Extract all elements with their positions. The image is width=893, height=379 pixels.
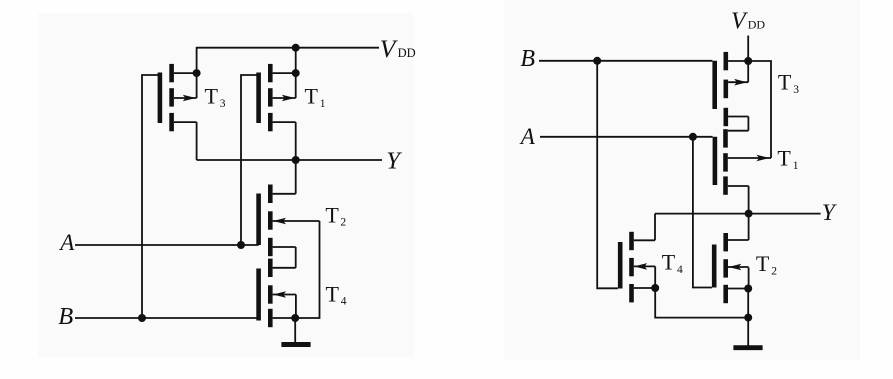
svg-text:T: T	[326, 281, 340, 306]
transistor T3 (left)	[160, 64, 197, 131]
node: T4 source junction	[291, 314, 299, 322]
transistor T1 (left)	[259, 64, 296, 131]
transistor T2 (right)	[714, 233, 748, 303]
wire: output Y line (left)	[197, 159, 382, 161]
wire: T4 body down to source node	[654, 266, 656, 288]
node: T3 drain junction	[193, 69, 201, 77]
svg-text:T: T	[325, 202, 339, 227]
svg-text:T: T	[777, 146, 791, 171]
scan background tint (left page scan)	[38, 13, 414, 357]
right circuit: E/D NMOS NOR gate	[519, 9, 838, 348]
wire: T3 drain over to body rail of T1	[748, 61, 771, 158]
svg-text:B: B	[520, 46, 535, 72]
label T1 (left)	[305, 84, 326, 111]
svg-text:Y: Y	[386, 148, 402, 175]
svg-text:DD: DD	[748, 18, 766, 32]
svg-text:A: A	[519, 124, 536, 149]
svg-text:T: T	[305, 84, 319, 109]
wire: Y down to T4 drain	[654, 214, 656, 241]
svg-text:DD: DD	[398, 46, 416, 60]
ground (right)	[733, 345, 762, 350]
node: ground-node junction	[744, 314, 752, 322]
wire: T4 body down to source node	[295, 295, 297, 319]
wire: T2 drain up to Y	[748, 214, 750, 240]
svg-text:T: T	[662, 250, 676, 275]
wire: T1 source down to Y	[295, 122, 297, 160]
node: B branch junction	[593, 57, 601, 65]
transistor T4 (left)	[259, 259, 296, 328]
wire: T1 drain/body to VDD	[295, 47, 297, 98]
node: T1 drain on VDD rail	[292, 44, 300, 52]
svg-text:1: 1	[320, 98, 326, 110]
wire: input B line (right)	[539, 60, 712, 62]
node: T2 source junction	[744, 285, 752, 293]
svg-text:A: A	[58, 230, 75, 255]
wire: T2 body return to source node	[295, 221, 319, 318]
wire: T3 drain/body to VDD	[196, 47, 198, 98]
svg-text:2: 2	[340, 216, 346, 228]
label T4 (left)	[326, 281, 347, 307]
label T4 (right)	[662, 250, 683, 277]
left circuit: E/D NMOS NAND gate	[58, 34, 415, 345]
node: Y junction (right)	[745, 210, 753, 218]
label T3 (right)	[778, 69, 799, 96]
svg-text:2: 2	[771, 266, 777, 278]
node: Y junction (left)	[292, 156, 300, 164]
wire: T2 drain up to Y	[295, 160, 297, 194]
transistor T3 (right)	[715, 52, 749, 126]
svg-text:T: T	[778, 69, 792, 94]
wire: B down to T4 gate	[597, 61, 618, 288]
svg-text:T: T	[756, 251, 770, 276]
wire: ground stub (right)	[747, 289, 749, 348]
svg-text:3: 3	[793, 84, 799, 96]
wire: ground stub (left)	[294, 318, 296, 345]
svg-text:B: B	[58, 303, 73, 330]
node: A branch junction	[689, 133, 697, 141]
wire: input A line (left)	[75, 244, 259, 246]
wire: T1 gate to A line	[241, 75, 259, 245]
svg-text:4: 4	[341, 295, 347, 307]
ground (left)	[281, 342, 310, 347]
label T1 (right)	[777, 146, 798, 172]
node: T1 drain junction	[292, 69, 300, 77]
transistor T4 (right)	[620, 232, 655, 303]
svg-text:1: 1	[793, 160, 799, 172]
svg-text:4: 4	[677, 264, 683, 276]
wire: A down to T2 gate	[693, 137, 712, 288]
label T2 (right)	[756, 251, 777, 278]
wire: output Y line (right)	[655, 213, 821, 215]
label T2 (left)	[325, 202, 346, 228]
node: T3 gate - B junction	[138, 314, 146, 322]
wire: input A line (right)	[540, 136, 713, 138]
wire: T2 source to T4 drain	[295, 247, 297, 268]
wire: VDD lead down to T3	[747, 36, 749, 83]
transistor T2 (left)	[259, 185, 320, 257]
svg-text:T: T	[205, 84, 219, 109]
wire: T4 source link to ground node	[655, 288, 748, 318]
label VDD (right)	[731, 9, 765, 35]
wire: T3 gate to B line	[142, 75, 160, 318]
scan background tint (right page scan)	[504, 0, 860, 360]
svg-text:3: 3	[220, 98, 226, 110]
node: T4 source junction	[651, 284, 659, 292]
wire: T1 source down to Y	[748, 186, 750, 214]
wire: T3 source down to Y	[196, 122, 198, 160]
transistor T1 (right)	[715, 129, 771, 195]
wire: T2 body down to source node	[748, 268, 750, 289]
node: T3 drain on VDD lead	[744, 57, 752, 65]
wire: VDD rail (left)	[197, 47, 379, 49]
wire: input B line (left)	[75, 317, 259, 319]
node: T1 gate - A junction	[237, 241, 245, 249]
label VDD (left)	[380, 34, 416, 63]
label T3 (left)	[205, 84, 226, 111]
wire: T3 source to T1 drain	[747, 117, 749, 131]
svg-text:V: V	[731, 9, 748, 35]
